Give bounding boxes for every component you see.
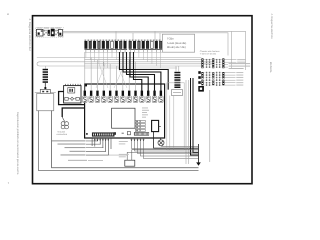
svg-text:8D+B (J4+7 dE): 8D+B (J4+7 dE) [167,46,186,49]
svg-text:a: a [7,12,9,16]
svg-text:Chassis wire harness: Chassis wire harness [200,50,220,53]
svg-text:T-10-M (T-10-AC): T-10-M (T-10-AC) [200,53,217,56]
svg-text:TCBe: TCBe [167,37,174,40]
svg-text:5-4+B (24+4 dE): 5-4+B (24+4 dE) [167,42,186,45]
svg-text:Reproduccion prohibida sin aut: Reproduccion prohibida sin autorizacion … [16,112,19,175]
svg-text:connection: connection [57,133,68,136]
svg-text:4. Esquema electrico: 4. Esquema electrico [270,14,273,40]
svg-text:4. Diagrama electrico del: 4. Diagrama electrico del [28,19,32,51]
svg-text:Ground: Ground [58,131,66,134]
svg-text:MANUAL: MANUAL [269,62,272,74]
